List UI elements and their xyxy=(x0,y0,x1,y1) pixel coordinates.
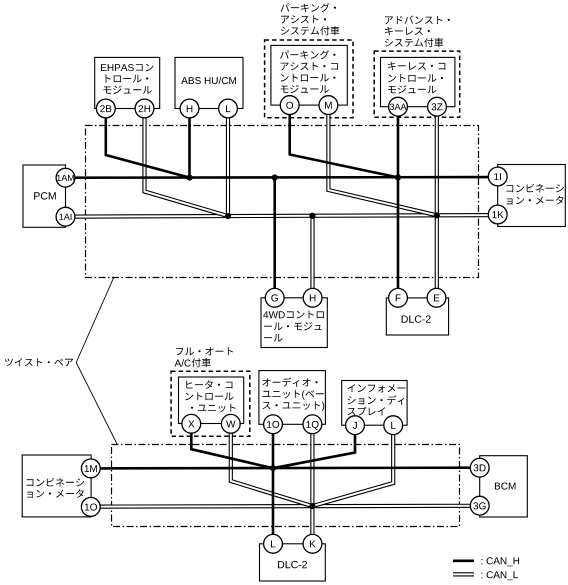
label BCM xyxy=(495,483,516,490)
pin 1M meter lower xyxy=(81,459,100,478)
wire CAN_L from ABS L to bus xyxy=(226,109,230,217)
pin K DLC-2 lower xyxy=(303,534,322,553)
module box ABS HU/CM xyxy=(175,57,243,108)
wire CAN_H from EHPAS 2B to bus xyxy=(106,109,190,178)
pin J info display xyxy=(346,416,365,435)
pin 3Z keyless xyxy=(428,97,447,116)
module box EHPAS control module xyxy=(95,57,160,108)
pin L info display xyxy=(384,416,403,435)
junction CAN_L lower bus / audio 1Q / heater W / info L xyxy=(309,503,315,509)
legend CAN_H sample line xyxy=(453,559,474,562)
pin 1O audio xyxy=(264,415,283,434)
wire CAN_L keyless 3Z through bus to DLC-2 E xyxy=(435,107,439,298)
module box heater control unit xyxy=(179,377,244,424)
label 4WD control module xyxy=(263,311,324,342)
pin E DLC-2 xyxy=(427,288,446,307)
wire CAN_L from bus to 4WD H xyxy=(310,216,314,298)
pin 2B EHPAS xyxy=(96,99,115,118)
pin 1I meter xyxy=(488,167,507,186)
twisted-pair boundary box (upper CAN bus) xyxy=(86,126,479,278)
module box information display xyxy=(342,381,407,426)
dashed option box: parking assist system equipped xyxy=(265,40,353,118)
wire CAN_L upper bus 1AI to 1K xyxy=(75,215,488,217)
junction CAN_H bus / 3AA / parking O xyxy=(395,174,401,180)
junction CAN_H bus / 4WD G xyxy=(272,174,278,180)
wire CAN_H lower bus 1M to 3D xyxy=(100,466,470,469)
pin 3AA keyless xyxy=(389,97,408,116)
label EHPAS control module xyxy=(101,64,153,94)
wire CAN_L audio 1Q through bus to DLC-2 K xyxy=(310,424,314,544)
label audio unit (base unit) xyxy=(262,378,324,412)
module box DLC-2 (lower) xyxy=(260,544,326,581)
module box DLC-2 (upper) xyxy=(386,298,448,335)
module box combination meter (upper right) xyxy=(498,165,566,227)
wire CAN_H keyless 3AA through bus to DLC-2 F xyxy=(397,107,400,298)
pin H ABS xyxy=(180,99,199,118)
dashed option box: advanced keyless system equipped xyxy=(374,51,460,117)
pin X heater xyxy=(182,414,201,433)
wire CAN_H from info display J to bus xyxy=(273,425,355,468)
wire CAN_L from heater W to bus xyxy=(231,424,313,506)
label ABS HU/CM xyxy=(181,77,236,84)
junction CAN_L bus / ABS L / EHPAS 2H xyxy=(225,213,231,219)
wire CAN_H from parking O to bus xyxy=(290,105,398,177)
label DLC-2 upper xyxy=(402,315,431,322)
label DLC-2 lower xyxy=(278,561,307,568)
wire CAN_L from parking M to bus xyxy=(328,105,436,215)
pin L DLC-2 lower xyxy=(264,534,283,553)
label parking assist system equipped xyxy=(281,3,340,35)
label full auto A/C equipped xyxy=(175,347,234,367)
wire CAN_H from ABS H to bus xyxy=(188,109,191,178)
label keyless control module xyxy=(388,62,445,94)
module box parking assist control module xyxy=(271,45,347,105)
junction CAN_L bus / 3Z / parking M xyxy=(434,212,440,218)
junction CAN_L bus / 4WD H xyxy=(309,213,315,219)
pin H 4WD xyxy=(303,288,322,307)
pin 3G BCM xyxy=(470,496,489,515)
twisted-pair pointer line to upper box xyxy=(76,278,114,363)
dashed option box: full auto A/C equipped xyxy=(171,371,250,436)
wire CAN_H audio 1O through bus to DLC-2 L xyxy=(272,424,275,544)
wire CAN_L from EHPAS 2H to bus xyxy=(145,109,229,217)
label combination meter upper xyxy=(506,184,563,205)
label combination meter lower xyxy=(27,478,85,498)
legend CAN_L text xyxy=(481,571,518,580)
pin 1Q audio xyxy=(303,415,322,434)
legend CAN_H text xyxy=(481,557,519,566)
wire CAN_H upper bus 1AM to 1I xyxy=(75,176,488,179)
pin 1K meter xyxy=(488,205,507,224)
legend CAN_L sample line xyxy=(453,572,474,576)
label information display xyxy=(347,384,405,416)
label heater control unit xyxy=(185,380,235,412)
pin L ABS xyxy=(219,99,238,118)
pin 1AM PCM xyxy=(56,168,75,187)
module box 4WD control module xyxy=(261,298,327,348)
junction CAN_H lower bus / audio 1O / heater X / info J xyxy=(270,465,276,471)
module box PCM xyxy=(23,165,66,227)
twisted-pair boundary box (lower CAN bus) xyxy=(112,445,460,527)
label PCM xyxy=(34,192,56,199)
wire CAN_H from heater X to bus xyxy=(191,424,273,468)
module box combination meter (lower left) xyxy=(22,455,91,517)
wire CAN_L lower bus 1O to 3G xyxy=(100,504,470,509)
module box BCM xyxy=(480,456,528,517)
junction CAN_H bus / ABS H xyxy=(186,175,192,181)
twisted-pair pointer line to lower box xyxy=(76,363,117,445)
wire CAN_L from info display L to bus xyxy=(312,425,393,506)
pin F DLC-2 xyxy=(389,288,408,307)
pin G 4WD xyxy=(265,288,284,307)
label twisted pair xyxy=(5,358,73,366)
pin 1AI PCM xyxy=(56,207,75,226)
pin 3D BCM xyxy=(470,458,489,477)
pin 1O meter lower xyxy=(81,498,100,517)
label advanced keyless system equipped xyxy=(385,16,450,48)
wire CAN_H from bus to 4WD G xyxy=(273,178,276,298)
module box keyless control module xyxy=(381,57,455,106)
pin M parking xyxy=(319,96,338,115)
pin W heater xyxy=(221,414,240,433)
pin O parking xyxy=(280,96,299,115)
pin 2H EHPAS xyxy=(135,99,154,118)
label parking assist control module xyxy=(280,50,338,93)
module box audio unit (base unit) xyxy=(259,371,326,425)
